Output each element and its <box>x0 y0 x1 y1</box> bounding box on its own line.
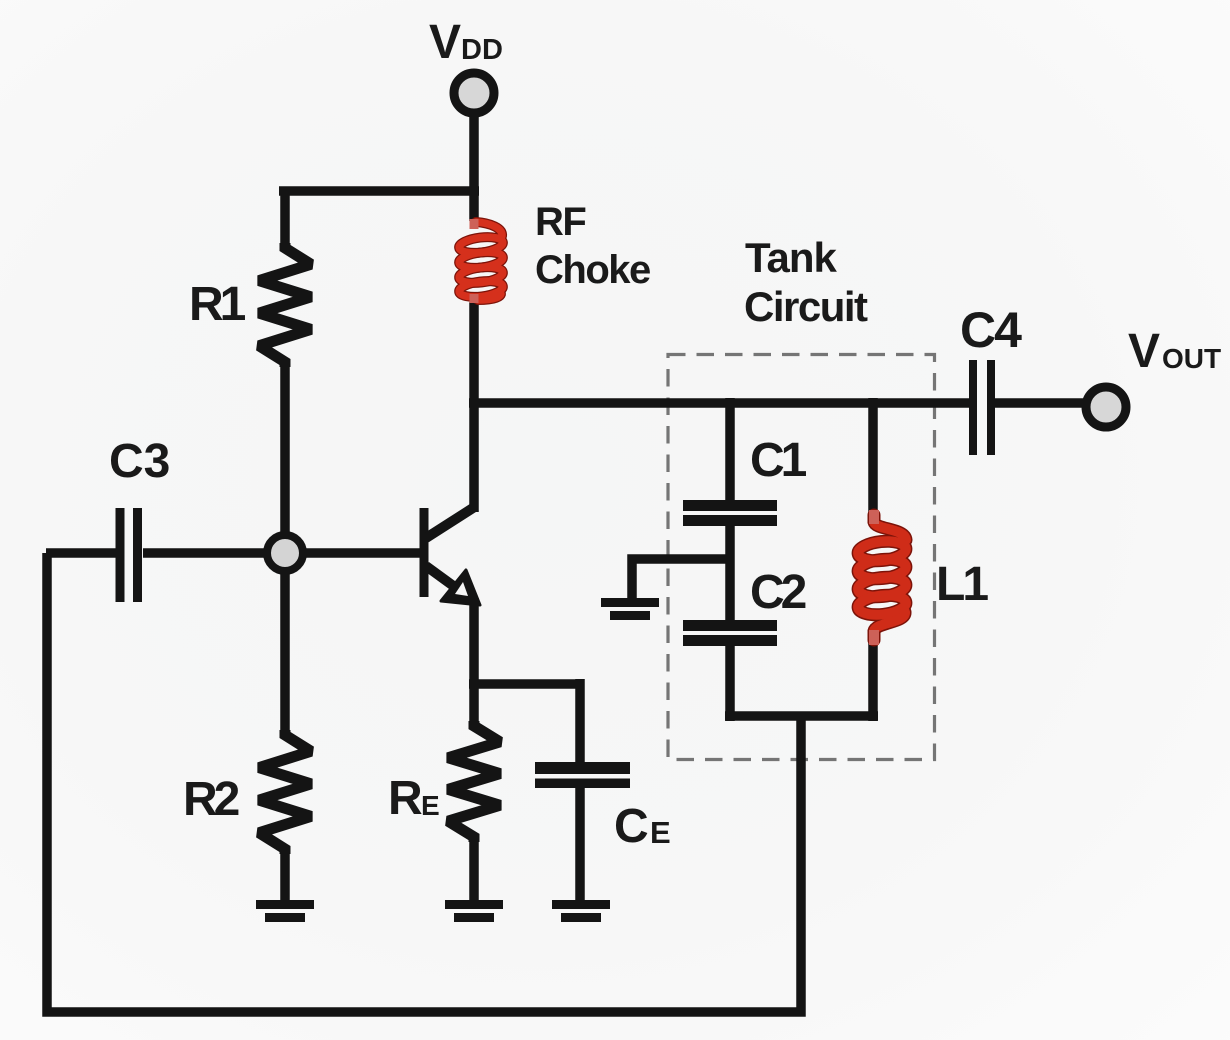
svg-text:L1: L1 <box>936 558 988 611</box>
svg-text:C4: C4 <box>960 302 1022 358</box>
svg-text:C3: C3 <box>109 435 170 488</box>
svg-text:RF: RF <box>535 200 585 244</box>
svg-text:Choke: Choke <box>535 248 650 292</box>
svg-text:E: E <box>650 815 671 850</box>
svg-text:V: V <box>429 16 461 69</box>
svg-text:C2: C2 <box>750 566 806 619</box>
svg-text:V: V <box>1128 325 1160 378</box>
svg-text:Circuit: Circuit <box>744 283 868 330</box>
svg-text:C1: C1 <box>750 434 807 487</box>
svg-text:R: R <box>388 772 423 825</box>
svg-text:OUT: OUT <box>1162 343 1221 374</box>
svg-text:DD: DD <box>461 34 503 66</box>
svg-text:Tank: Tank <box>745 234 838 281</box>
svg-text:R1: R1 <box>189 278 246 331</box>
svg-text:E: E <box>421 790 440 821</box>
svg-text:R2: R2 <box>183 773 239 826</box>
svg-text:C: C <box>614 800 649 853</box>
